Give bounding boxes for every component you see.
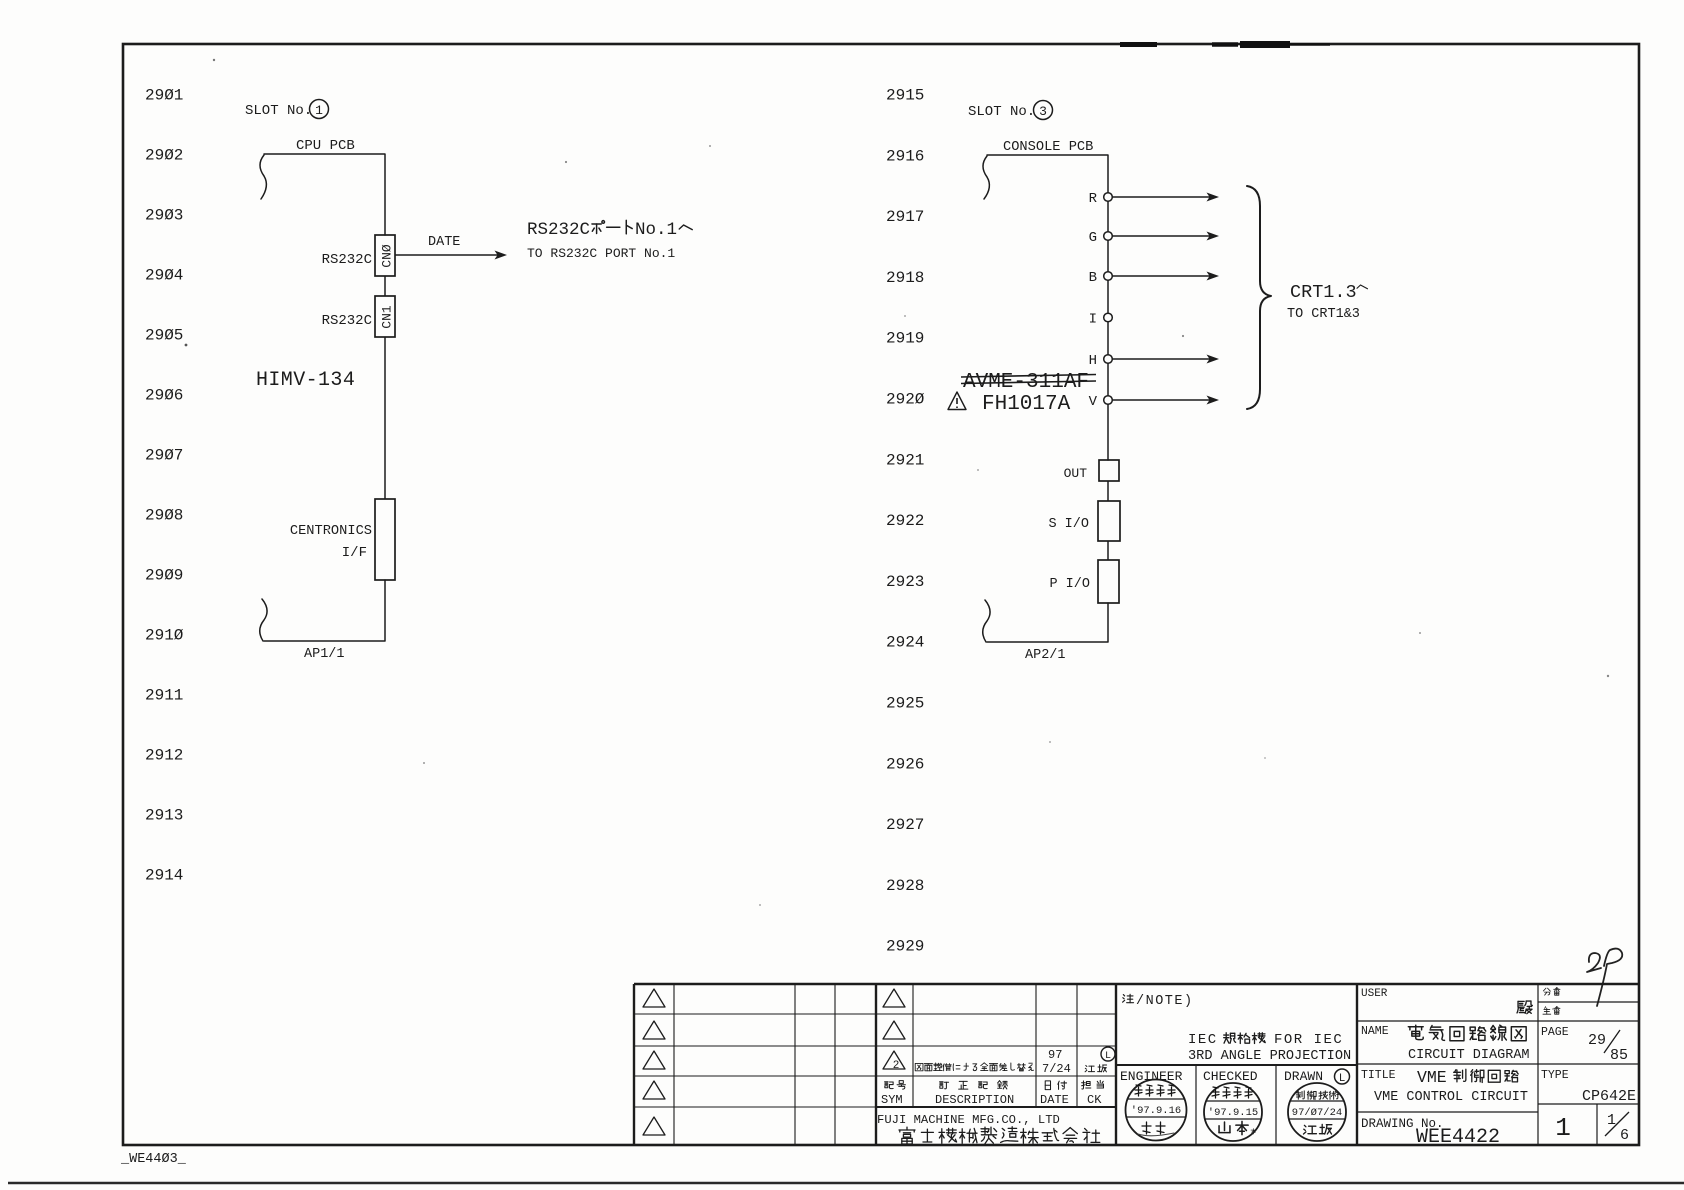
svg-text:2918: 2918: [886, 269, 924, 287]
svg-text:3: 3: [1039, 104, 1047, 119]
brace to CRT: [1247, 186, 1271, 409]
svg-text:VME: VME: [1417, 1068, 1447, 1087]
CPU PCB top wire: [264, 154, 385, 235]
svg-text:CONSOLE PCB: CONSOLE PCB: [1003, 140, 1093, 155]
wire CN1 to CENTRONICS: [384, 337, 386, 499]
CONSOLE PCB break squiggle: [983, 156, 989, 199]
svg-text:USER: USER: [1361, 988, 1388, 1000]
svg-text:29Ø8: 29Ø8: [145, 507, 183, 525]
svg-text:29Ø1: 29Ø1: [145, 87, 183, 105]
L circle mark in CK cell: [1101, 1047, 1115, 1061]
svg-text:'97.9.15: '97.9.15: [1208, 1107, 1258, 1119]
svg-text:CRT1.3: CRT1.3: [1290, 282, 1357, 303]
svg-text:29Ø6: 29Ø6: [145, 387, 183, 405]
AP1/1 break squiggle: [260, 599, 267, 641]
svg-text:TITLE: TITLE: [1361, 1069, 1396, 1082]
svg-text:1: 1: [1555, 1113, 1571, 1143]
svg-text:L: L: [1105, 1051, 1111, 1062]
svg-text:2911: 2911: [145, 687, 183, 705]
svg-text:CPU PCB: CPU PCB: [296, 138, 355, 154]
svg-text:2912: 2912: [145, 747, 183, 765]
svg-text:CP642E: CP642E: [1582, 1088, 1636, 1105]
svg-text:2915: 2915: [886, 87, 924, 105]
svg-text:DRAWN: DRAWN: [1284, 1069, 1323, 1084]
svg-text:2919: 2919: [886, 330, 924, 348]
svg-text:/NOTE): /NOTE): [1136, 994, 1194, 1009]
svg-text:29Ø9: 29Ø9: [145, 567, 183, 585]
svg-text:SLOT No.: SLOT No.: [245, 103, 312, 119]
title block outer lines: [634, 983, 1640, 985]
S I/O connector box: [1098, 501, 1120, 541]
svg-text:2925: 2925: [886, 695, 924, 713]
svg-text:2928: 2928: [886, 877, 924, 895]
svg-text:FUJI MACHINE MFG.CO., LTD: FUJI MACHINE MFG.CO., LTD: [877, 1113, 1060, 1127]
svg-text:29: 29: [1588, 1032, 1606, 1049]
svg-text:NAME: NAME: [1361, 1025, 1389, 1038]
svg-text:FH1017A: FH1017A: [982, 393, 1071, 416]
svg-text:'97.9.16: '97.9.16: [1131, 1105, 1181, 1117]
left revision triangles: [643, 989, 665, 1007]
svg-text:2924: 2924: [886, 634, 924, 652]
svg-text:TO RS232C PORT No.1: TO RS232C PORT No.1: [527, 246, 675, 261]
svg-text:RS232C: RS232C: [322, 313, 372, 329]
connector CN0 box: [375, 235, 395, 276]
svg-text:3RD ANGLE PROJECTION: 3RD ANGLE PROJECTION: [1188, 1049, 1351, 1064]
svg-text:SYM: SYM: [881, 1093, 903, 1107]
sym/description/date/ck header row: [885, 1082, 894, 1089]
svg-text:DATE: DATE: [428, 235, 460, 250]
svg-text:AP1/1: AP1/1: [304, 647, 345, 662]
svg-text:2917: 2917: [886, 208, 924, 226]
signal arrow V: [1113, 399, 1216, 401]
bunban/seiban cells: [1537, 984, 1539, 1146]
svg-text:29Ø7: 29Ø7: [145, 447, 183, 465]
revision triangle 2: [883, 1051, 905, 1069]
revision 2 description (zenmen sashikae): [915, 1063, 923, 1070]
sheet number cells: [1596, 1104, 1598, 1146]
wire OUT to S I/O: [1107, 481, 1109, 501]
scan blotches on top border: [1120, 42, 1157, 47]
svg-text:OUT: OUT: [1064, 466, 1088, 481]
svg-text:RS232C: RS232C: [527, 220, 590, 240]
svg-text:S I/O: S I/O: [1048, 517, 1089, 532]
name cell: [1357, 1063, 1640, 1065]
checked stamp: [1204, 1083, 1262, 1141]
svg-text:ENGINEER: ENGINEER: [1120, 1069, 1183, 1084]
svg-text:_WE44Ø3_: _WE44Ø3_: [120, 1152, 187, 1167]
svg-text:29Ø5: 29Ø5: [145, 327, 183, 345]
svg-text:AP2/1: AP2/1: [1025, 648, 1066, 663]
svg-text:L: L: [1339, 1073, 1346, 1085]
svg-text:CHECKED: CHECKED: [1203, 1069, 1258, 1084]
revision warning triangle: [948, 392, 966, 410]
svg-text:IEC: IEC: [1188, 1032, 1218, 1048]
svg-text:6: 6: [1620, 1127, 1629, 1144]
signal arrow R: [1113, 196, 1216, 198]
svg-text:2926: 2926: [886, 755, 924, 773]
engineer/checked/drawn cells: [1195, 1065, 1197, 1146]
middle revision triangles rows 1-2: [883, 989, 905, 1007]
svg-text:PAGE: PAGE: [1541, 1026, 1569, 1039]
svg-text:97/Ø7/24: 97/Ø7/24: [1292, 1107, 1342, 1119]
signal arrow H: [1113, 358, 1216, 360]
svg-text:97: 97: [1048, 1048, 1062, 1062]
svg-text:I: I: [1089, 312, 1097, 328]
svg-text:HIMV-134: HIMV-134: [256, 369, 355, 392]
svg-text:I/F: I/F: [342, 545, 367, 561]
svg-text:29Ø4: 29Ø4: [145, 267, 183, 285]
svg-text:2921: 2921: [886, 451, 924, 469]
svg-text:CNØ: CNØ: [380, 244, 395, 268]
svg-text:2914: 2914: [145, 867, 183, 885]
svg-text:291Ø: 291Ø: [145, 627, 184, 645]
CONSOLE PCB top wire: [987, 155, 1108, 460]
type cell: [1538, 1103, 1640, 1105]
svg-text:SLOT No.: SLOT No.: [968, 104, 1035, 120]
svg-text:P I/O: P I/O: [1049, 577, 1090, 592]
svg-text:WEE4422: WEE4422: [1416, 1126, 1500, 1149]
svg-text:G: G: [1089, 230, 1097, 246]
note cell: [1116, 1064, 1357, 1066]
svg-text:85: 85: [1610, 1047, 1628, 1064]
svg-text:TO CRT1&3: TO CRT1&3: [1287, 307, 1360, 322]
svg-text:2923: 2923: [886, 573, 924, 591]
P I/O connector box: [1098, 560, 1119, 603]
wire S I/O to P I/O: [1107, 541, 1109, 560]
wire CENTRONICS to AP1/1: [264, 580, 385, 641]
bottom paper edge line: [8, 1182, 1684, 1185]
AP2/1 break squiggle: [983, 600, 990, 642]
signal arrow B: [1113, 275, 1216, 277]
slot 3 number circle 3: [1034, 101, 1053, 120]
svg-text:CN1: CN1: [380, 305, 395, 329]
handwritten page mark 2P: [1587, 953, 1601, 972]
svg-text:2913: 2913: [145, 807, 183, 825]
CPU PCB break squiggle top-left: [260, 155, 266, 199]
svg-text:CK: CK: [1087, 1093, 1102, 1107]
slot 1 number circle 1: [310, 100, 329, 119]
svg-text:V: V: [1089, 394, 1098, 410]
svg-text:CENTRONICS: CENTRONICS: [290, 524, 372, 539]
svg-text:R: R: [1089, 191, 1098, 207]
revision 2 CK Esaka: [1085, 1065, 1094, 1071]
scan specks: [213, 59, 215, 61]
svg-text:2929: 2929: [886, 938, 924, 956]
svg-text:FOR IEC: FOR IEC: [1274, 1032, 1343, 1048]
OUT connector box: [1099, 460, 1119, 481]
svg-text:TYPE: TYPE: [1541, 1069, 1569, 1082]
svg-text:29Ø3: 29Ø3: [145, 207, 183, 225]
svg-text:2922: 2922: [886, 512, 924, 530]
DATE arrow wire to RS232C port: [395, 254, 503, 256]
svg-text:VME CONTROL CIRCUIT: VME CONTROL CIRCUIT: [1374, 1090, 1528, 1105]
wire CN0 to CN1: [384, 276, 386, 296]
svg-text:RS232C: RS232C: [322, 252, 372, 268]
svg-text:2927: 2927: [886, 816, 924, 834]
middle revision table grid: [876, 1013, 1116, 1015]
svg-text:No.1: No.1: [635, 220, 677, 240]
svg-text:B: B: [1089, 270, 1097, 286]
user cell: [1357, 1020, 1640, 1022]
left revision table grid: [634, 1013, 876, 1015]
svg-text:2916: 2916: [886, 147, 924, 165]
wire P I/O to AP2/1: [987, 603, 1108, 642]
svg-text:1: 1: [315, 103, 323, 118]
svg-text:7/24: 7/24: [1042, 1062, 1071, 1076]
title cell: [1357, 1111, 1538, 1113]
svg-text:DESCRIPTION: DESCRIPTION: [935, 1093, 1014, 1107]
svg-text:292Ø: 292Ø: [886, 391, 925, 409]
svg-text:DATE: DATE: [1040, 1093, 1069, 1107]
svg-text:29Ø2: 29Ø2: [145, 147, 183, 165]
svg-text:H: H: [1089, 353, 1097, 369]
svg-text:2: 2: [893, 1060, 900, 1072]
CENTRONICS I/F connector box: [375, 499, 395, 580]
connector CN1 box: [375, 296, 395, 337]
signal arrow G: [1113, 235, 1216, 237]
engineer stamp: [1126, 1080, 1187, 1141]
svg-text:CIRCUIT DIAGRAM: CIRCUIT DIAGRAM: [1408, 1048, 1530, 1063]
L circle after DRAWN: [1335, 1069, 1350, 1084]
drawn stamp: [1288, 1083, 1346, 1141]
